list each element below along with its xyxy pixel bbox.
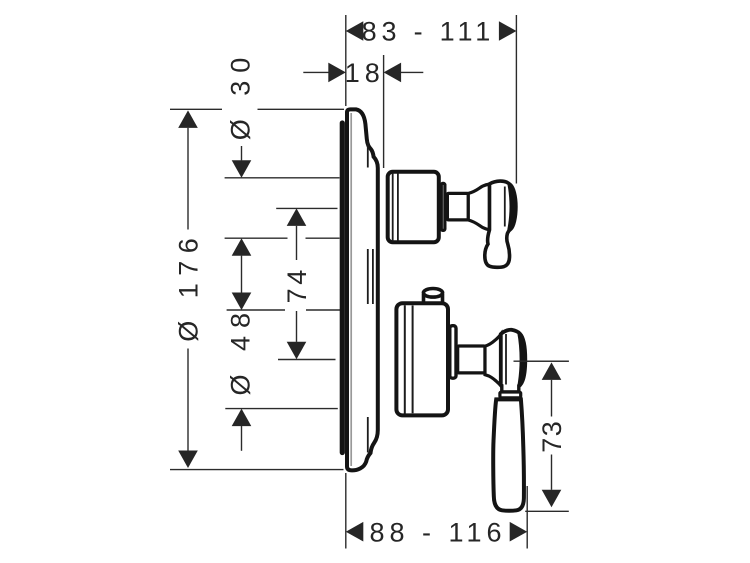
bottom handle hub <box>485 334 501 385</box>
svg-text:73: 73 <box>537 420 567 453</box>
lever neck <box>502 385 519 393</box>
bottom spindle <box>458 346 485 373</box>
arrow 83-111 right <box>499 21 517 41</box>
dimension line 73 stems <box>551 380 553 417</box>
svg-text:Ø 30: Ø 30 <box>226 50 256 141</box>
extent line dia30 upper arrowside <box>225 237 288 239</box>
arrow 83-111 left <box>346 21 364 41</box>
bottom knob face line <box>505 334 507 386</box>
svg-text:18: 18 <box>345 58 385 88</box>
top handle hub <box>468 184 489 230</box>
lever collar <box>500 392 521 398</box>
plate rim step line B <box>372 249 374 304</box>
73 top extent over knob <box>514 360 569 362</box>
svg-text:Ø 48: Ø 48 <box>226 305 256 396</box>
dimension line dia176 stems <box>187 128 189 230</box>
top handle face line <box>504 187 506 227</box>
escutcheon plate body <box>347 109 378 470</box>
arrow 88-116 left <box>346 522 364 542</box>
arrow dia48 down <box>232 293 252 311</box>
arrow dia30 up <box>232 238 252 256</box>
top sleeve cylinder edge line <box>397 174 399 241</box>
dimension stem 74 <box>296 226 298 260</box>
arrow 18 right <box>384 63 402 83</box>
dimension line 18 left stem <box>303 71 329 73</box>
top valve sleeve body <box>388 172 439 243</box>
bottom step ring <box>450 326 456 379</box>
svg-text:83 - 111: 83 - 111 <box>362 17 495 47</box>
svg-text:Ø 176: Ø 176 <box>174 231 204 342</box>
safety stop button <box>423 289 442 309</box>
escutcheon plate wall flange (thick back band) <box>340 123 345 453</box>
top valve spindle <box>447 193 468 220</box>
top handle paddle edge (dark) <box>507 183 515 230</box>
dimension stem dia48 <box>241 426 243 451</box>
extension line bottom-left <box>345 473 347 549</box>
arrow dia48 up <box>232 409 252 427</box>
extent line dia30 lower <box>225 177 340 179</box>
top sleeve flange edge line <box>392 173 394 241</box>
dimension line 18 right stem <box>401 71 424 73</box>
extension line bottom-right (lever front) <box>526 486 528 549</box>
arrow dia176 top <box>178 110 198 128</box>
dimension stem dia30 <box>241 146 243 160</box>
extension line top-left (wall plane) <box>345 15 347 106</box>
arrow 73 bottom <box>542 490 562 508</box>
bottom sleeve flange edge line <box>404 305 406 413</box>
svg-text:88 - 116: 88 - 116 <box>369 517 506 547</box>
bottom sleeve body <box>396 303 448 415</box>
extent line 73 bottom <box>525 510 569 512</box>
arrow 88-116 right <box>510 522 528 542</box>
bottom sleeve cylinder edge line <box>412 306 414 414</box>
plate inner grey line <box>350 113 352 466</box>
arrow dia176 bottom <box>178 451 198 469</box>
extension line 18 right <box>383 55 385 168</box>
top valve step ring <box>441 183 445 230</box>
extent line dia48 upper <box>227 309 285 311</box>
lever grip <box>493 399 524 510</box>
bottom knob paddle edge (dark) <box>517 333 526 387</box>
arrow 18 left <box>328 63 346 83</box>
extent line dia48 lower <box>225 408 337 410</box>
plate rim step line A <box>367 141 369 453</box>
extent line 73 top <box>514 360 569 362</box>
svg-text:74: 74 <box>282 266 312 303</box>
arrow 74 down <box>287 342 307 360</box>
extent line plate bottom <box>170 469 344 471</box>
bottom handle knob <box>501 330 526 389</box>
extent line 74 lower (bottom handle axis) <box>278 359 336 361</box>
arrow 73 top <box>542 362 562 380</box>
extent line 74 upper (top handle axis) <box>276 207 337 209</box>
arrow dia30 down <box>232 160 252 178</box>
extent line plate top (dia176/dia30 datum) <box>170 108 222 110</box>
top handle lever body <box>485 181 516 267</box>
extension line top-right (handle front) <box>515 15 517 184</box>
arrow 74 up <box>287 208 307 226</box>
